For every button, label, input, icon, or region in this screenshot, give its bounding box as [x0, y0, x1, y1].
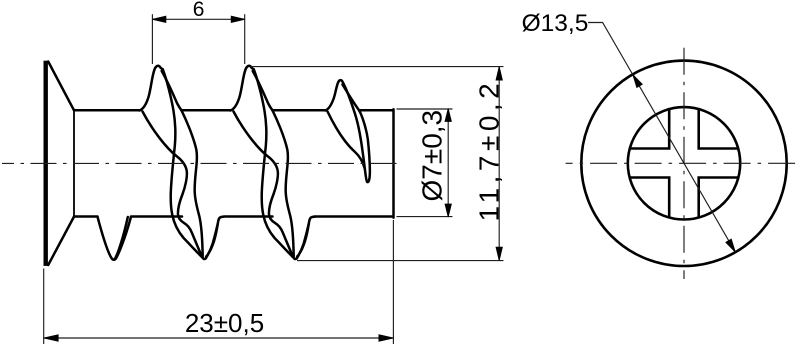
svg-text:Ø13,5: Ø13,5 — [522, 10, 589, 37]
svg-text:23±0,5: 23±0,5 — [185, 308, 264, 338]
svg-text:6: 6 — [193, 0, 205, 21]
svg-text:11,7±0,2: 11,7±0,2 — [473, 79, 504, 222]
svg-text:Ø7±0,3: Ø7±0,3 — [417, 110, 448, 202]
